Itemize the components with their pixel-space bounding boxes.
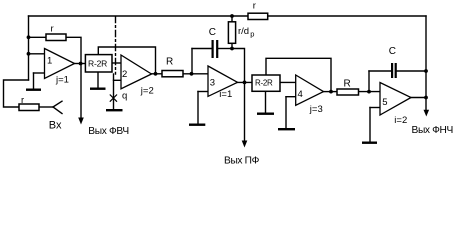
junction node C2 right (424, 69, 428, 73)
wire op2 lower input (114, 79, 122, 81)
wire ground stem op3 (197, 92, 199, 124)
junction node op1 summing r1 (27, 35, 31, 39)
wire ground stem op5 (369, 108, 371, 142)
junction node r/dp top (230, 14, 234, 18)
svg-text:R: R (344, 79, 351, 90)
op-amp 3 (208, 66, 238, 96)
wire C2 riser (368, 71, 370, 92)
arrowhead HPF output (78, 118, 84, 125)
q wiper cross mark (110, 95, 117, 102)
wire r/dp top stub (231, 16, 233, 22)
resistor r2 (input) (19, 104, 39, 111)
junction node op2 output (154, 72, 158, 76)
op-amp 4 (296, 75, 324, 105)
wire op4 feedback loop (266, 58, 331, 91)
wire q stem to ground (113, 74, 115, 109)
wire op1 output to box1 (75, 63, 86, 65)
junction node op3 output (243, 81, 247, 85)
svg-text:q: q (122, 90, 127, 101)
capacitor C2 plates (391, 63, 393, 78)
svg-text:R-2R: R-2R (255, 78, 273, 87)
wire op2 output to R (152, 73, 163, 75)
wire op5 lower input (370, 107, 380, 109)
svg-text:Вых ПФ: Вых ПФ (224, 155, 260, 166)
arrowhead BPF output (242, 141, 248, 148)
wire r1 left (29, 36, 47, 38)
svg-text:5: 5 (382, 97, 387, 108)
junction node op3 input (190, 72, 194, 76)
wire r2 to input chevron (39, 106, 53, 108)
wire C2 right (397, 70, 426, 72)
ground q (106, 109, 123, 111)
R-2R box 1 (85, 55, 112, 72)
wire op2 feedback loop (98, 47, 155, 74)
junction node op1 output (79, 62, 83, 66)
resistor r3 (top LPF feedback) (248, 13, 268, 19)
wire q dashed control line (115, 17, 117, 75)
wire box2 to op4 (280, 81, 296, 83)
ground op3 (189, 124, 205, 126)
wire R to op3 input (183, 73, 208, 75)
wire r/dp bottom stub (231, 43, 233, 48)
svg-text:R-2R: R-2R (88, 58, 107, 68)
wire to input resistor (4, 80, 29, 107)
wire C1 riser (191, 49, 193, 74)
svg-text:p: p (250, 30, 254, 39)
junction node A cap/rdp (230, 47, 234, 51)
svg-text:r: r (253, 1, 256, 12)
wire op3 output to box2 (238, 81, 253, 83)
wire op4 lower input (286, 96, 296, 98)
svg-text:r/d: r/d (238, 26, 249, 37)
resistor r/dp (vertical) (228, 22, 235, 44)
op-amp 2 (121, 55, 152, 89)
svg-text:R: R (166, 57, 173, 68)
op-amp 5 (380, 83, 411, 116)
wire box1 to op2 (112, 62, 121, 64)
svg-text:Вх: Вх (49, 120, 62, 132)
svg-text:i=2: i=2 (394, 115, 407, 126)
svg-text:j=2: j=2 (140, 85, 154, 96)
junction node op5 input riser (367, 90, 371, 94)
wire top summing/feedback bus (29, 15, 427, 17)
junction node op1 upper input (27, 52, 31, 56)
wire left summing column (28, 16, 30, 80)
svg-text:j=3: j=3 (309, 104, 323, 115)
svg-text:C: C (209, 27, 216, 38)
svg-text:Вых ФНЧ: Вых ФНЧ (412, 125, 453, 136)
ground op5 (362, 142, 377, 144)
wire ground stem box1 (97, 72, 99, 88)
svg-text:2: 2 (122, 69, 127, 80)
resistor R2 (op4 to op5) (337, 89, 359, 95)
svg-text:Вых ФВЧ: Вых ФВЧ (88, 126, 128, 137)
wire op5 output (411, 97, 426, 99)
svg-text:r: r (51, 24, 54, 35)
wire HPF output tap (80, 64, 82, 119)
wire r1 right to riser (66, 37, 81, 63)
wire C1 right (218, 48, 232, 50)
svg-text:C: C (389, 46, 396, 57)
svg-text:3: 3 (210, 78, 215, 89)
wire ground stem op1 (33, 73, 35, 89)
ground box1 (90, 88, 106, 90)
junction node op5 output (424, 96, 428, 100)
wire op1 upper input (29, 53, 45, 55)
resistor r1 (op1 feedback) (46, 34, 66, 41)
input terminal chevron (53, 101, 62, 113)
wire node A to op3 output (232, 49, 245, 83)
arrowhead LPF output (424, 110, 430, 117)
wire op3 lower input (198, 91, 208, 93)
svg-text:4: 4 (298, 89, 303, 100)
wire ground stem op4 (285, 97, 287, 128)
wire op4 output to R2 (324, 91, 338, 93)
wire C2 left (369, 70, 391, 72)
wire right feedback column (425, 16, 427, 111)
wire ground stem box2 (265, 91, 267, 112)
op-amp 1 (45, 49, 75, 79)
R-2R box 2 (252, 75, 280, 91)
svg-text:1: 1 (47, 56, 52, 67)
junction node op4 output (329, 90, 333, 94)
capacitor C1 plates (212, 40, 214, 58)
ground op4 (278, 128, 295, 130)
wire op1 lower input (34, 72, 45, 74)
svg-text:r: r (21, 95, 24, 106)
svg-text:i=1: i=1 (219, 89, 232, 100)
wire R2 to op5 input (359, 91, 381, 93)
ground box2 (257, 113, 274, 115)
ground op1 (26, 89, 41, 91)
wire C1 left (192, 48, 212, 50)
resistor R1 (op2 to op3) (162, 71, 183, 77)
wire BPF output tap (244, 82, 246, 141)
svg-text:j=1: j=1 (55, 74, 69, 85)
